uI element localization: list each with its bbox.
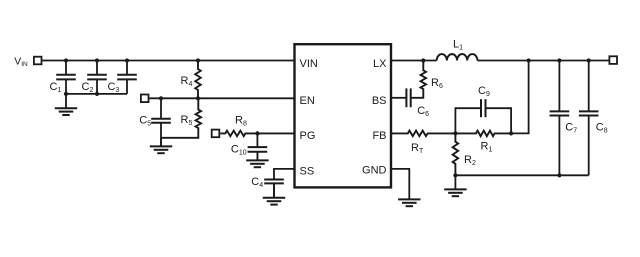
node junction feedback tap bbox=[527, 58, 531, 62]
svg-text:EN: EN bbox=[300, 95, 315, 107]
op-amp U1 regulator IC body bbox=[295, 44, 392, 187]
node junction C1 top bbox=[64, 58, 68, 62]
resistor R6 bbox=[411, 61, 426, 98]
ground SS cap bbox=[263, 183, 285, 204]
ground PG filter bbox=[246, 152, 268, 168]
ground input bypass bbox=[55, 94, 77, 115]
node junction C7 top bbox=[557, 58, 561, 62]
wire GND pin down bbox=[391, 169, 409, 200]
wire EN rail to pin EN bbox=[149, 97, 294, 99]
node junction C8 top bbox=[587, 58, 591, 62]
terminal VIN (input square) bbox=[34, 57, 42, 65]
wire C9 branch loop bbox=[455, 108, 511, 133]
svg-text:LX: LX bbox=[373, 58, 387, 70]
wire SS pin to C4 bbox=[274, 169, 295, 180]
resistor R8 with wire to pin PG bbox=[220, 131, 294, 137]
capacitor C3 bbox=[117, 61, 137, 94]
ground EN divider bbox=[150, 138, 172, 153]
resistor R4 bbox=[195, 61, 201, 99]
ground R2 bbox=[444, 175, 466, 196]
node junction C2 bottom bbox=[95, 92, 99, 96]
capacitor C1 bbox=[56, 61, 76, 94]
capacitor C4 bbox=[264, 180, 284, 198]
node junction R1/C9 right bbox=[509, 131, 513, 135]
svg-text:GND: GND bbox=[362, 164, 387, 176]
capacitor C8 bbox=[579, 61, 599, 176]
svg-text:SS: SS bbox=[300, 166, 315, 178]
wire C1-C2-C3 bottom bus bbox=[66, 93, 127, 95]
capacitor C10 bbox=[248, 133, 268, 160]
node junction R2 bottom bbox=[453, 173, 457, 177]
wire inductor to output terminal bbox=[477, 60, 608, 62]
node junction R6 top bbox=[421, 58, 425, 62]
capacitor C2 bbox=[87, 61, 107, 94]
node junction C3 top bbox=[125, 58, 129, 62]
resistor R2 bbox=[453, 133, 459, 175]
wire VIN rail: input terminal to pin VIN bbox=[42, 60, 294, 62]
resistor R1 bbox=[455, 131, 511, 137]
resistor RT with wire from FB pin bbox=[391, 131, 455, 137]
capacitor C6 (horizontal) bbox=[405, 88, 407, 107]
ground IC GND bbox=[398, 199, 420, 206]
wire BS pin to C6 bbox=[391, 97, 406, 99]
node junction FB divider bbox=[453, 131, 457, 135]
capacitor C9 (horizontal) bbox=[480, 99, 482, 117]
node junction C7 bottom bbox=[557, 173, 561, 177]
terminal EN (square) bbox=[141, 95, 149, 103]
wire feedback up to LX rail bbox=[511, 61, 528, 134]
wire output ground bus bbox=[455, 174, 588, 176]
node junction C2 top bbox=[95, 58, 99, 62]
terminal PG (square) bbox=[212, 130, 220, 138]
node junction C5 top bbox=[159, 96, 163, 100]
node junction R4 top bbox=[196, 58, 200, 62]
terminal VOUT (output square) bbox=[609, 56, 617, 64]
resistor R5 bbox=[161, 98, 201, 138]
svg-text:BS: BS bbox=[372, 95, 387, 107]
svg-text:VIN: VIN bbox=[300, 58, 318, 70]
node junction R4/R5 bbox=[196, 96, 200, 100]
svg-text:PG: PG bbox=[300, 130, 316, 142]
wire LX to inductor bbox=[391, 60, 437, 62]
node junction C1 bottom bbox=[64, 92, 68, 96]
node junction C10 top bbox=[255, 131, 259, 135]
svg-text:FB: FB bbox=[372, 130, 386, 142]
inductor L1 bbox=[437, 54, 478, 60]
capacitor C5 bbox=[151, 98, 171, 146]
capacitor C7 bbox=[550, 61, 570, 176]
